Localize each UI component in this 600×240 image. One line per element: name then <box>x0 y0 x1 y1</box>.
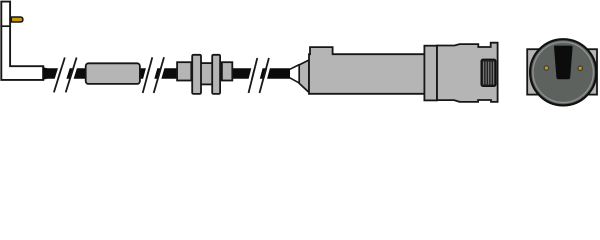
grommet left stub <box>177 62 191 80</box>
strain relief boot (trapezoid) <box>299 60 309 92</box>
contact pin left <box>544 66 549 71</box>
contact pin right <box>578 66 583 71</box>
connector main body <box>309 47 425 94</box>
keyway (black keystone) <box>554 46 573 80</box>
wire segment C: sleeve to break 2 <box>140 68 150 79</box>
grip rib stripes <box>484 62 494 85</box>
protective sleeve <box>86 63 140 84</box>
grip ribs box <box>481 59 496 86</box>
connector rear housing <box>437 43 498 102</box>
break mark 3 (double slash) <box>246 58 271 93</box>
wire segment A: bracket foot to break 1 <box>42 67 61 80</box>
sensor contact tab (gold) <box>11 17 23 22</box>
wire segment D: break 2 to grommet <box>154 68 177 79</box>
break mark 2 (double slash) <box>141 57 167 93</box>
wire segment B: break 1 to sleeve <box>66 68 86 79</box>
grommet right stub <box>222 62 232 80</box>
wire segment E: grommet to break 3 <box>232 68 255 79</box>
bracket seam line <box>0 25 11 27</box>
connector face inner ring <box>533 42 593 102</box>
connector face plate (front view) <box>527 49 597 94</box>
connector face outer circle <box>530 39 596 105</box>
break mark 1 (double slash) <box>52 58 79 93</box>
grommet flange 1 <box>192 55 201 94</box>
grommet flange 2 <box>212 55 220 94</box>
mounting bracket (L-shape) <box>1 2 43 80</box>
grommet core <box>199 63 214 84</box>
wire segment F: break 3 to connector <box>260 68 290 79</box>
connector collar ring <box>424 46 437 101</box>
strain relief cone lines <box>290 65 299 70</box>
